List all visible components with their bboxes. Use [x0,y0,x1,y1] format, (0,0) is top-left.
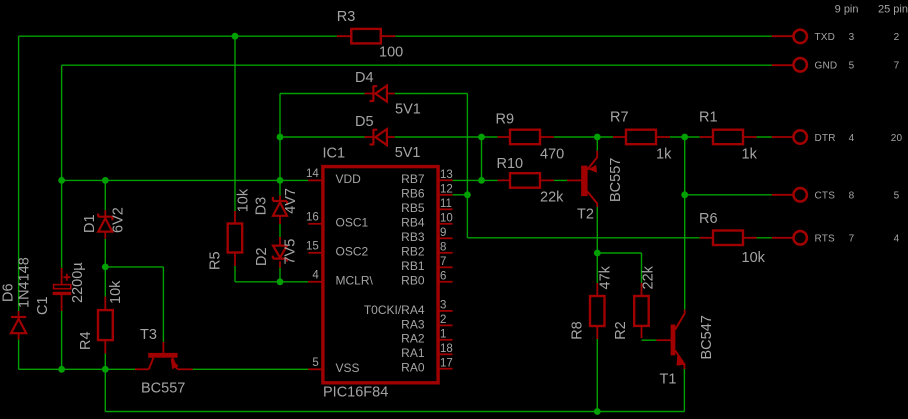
svg-text:R1: R1 [699,110,718,126]
svg-text:RB5: RB5 [401,201,425,215]
svg-text:RB4: RB4 [401,216,425,230]
svg-text:T0CKI/RA4: T0CKI/RA4 [364,303,425,317]
svg-text:BC547: BC547 [699,315,715,359]
svg-text:T3: T3 [140,327,157,343]
svg-text:22k: 22k [640,265,656,289]
svg-text:15: 15 [306,240,319,252]
svg-text:RB3: RB3 [401,230,425,244]
svg-text:6: 6 [440,270,446,282]
svg-text:470: 470 [540,147,564,163]
svg-text:R3: R3 [337,9,356,25]
svg-text:4: 4 [312,269,319,281]
svg-text:R8: R8 [570,321,586,340]
svg-text:MCLR\: MCLR\ [336,274,374,288]
svg-text:GND: GND [815,61,838,72]
svg-text:3: 3 [849,32,855,43]
svg-text:RB7: RB7 [401,172,425,186]
svg-text:RB2: RB2 [401,245,425,259]
svg-text:47k: 47k [597,265,613,289]
svg-text:14: 14 [306,168,319,180]
svg-text:BC557: BC557 [141,380,185,396]
svg-text:OSC2: OSC2 [336,245,369,259]
svg-text:4: 4 [894,234,900,245]
svg-text:RB0: RB0 [401,274,425,288]
svg-text:10k: 10k [235,188,251,212]
svg-text:2: 2 [894,32,900,43]
svg-text:R6: R6 [699,211,718,227]
svg-text:RTS: RTS [815,234,836,245]
svg-text:10: 10 [440,212,453,224]
svg-text:R4: R4 [78,331,94,350]
svg-text:C1: C1 [35,296,51,315]
svg-text:7V5: 7V5 [282,239,298,265]
svg-text:8: 8 [440,241,446,253]
svg-text:R10: R10 [497,156,524,172]
svg-text:RA2: RA2 [401,332,425,346]
svg-text:RA0: RA0 [401,361,425,375]
svg-text:RB6: RB6 [401,187,425,201]
svg-text:5V1: 5V1 [395,145,421,161]
svg-text:TXD: TXD [815,32,836,43]
svg-text:100: 100 [379,45,403,61]
svg-text:RA1: RA1 [401,346,425,360]
svg-text:9 pin: 9 pin [835,4,859,16]
svg-text:25 pin: 25 pin [878,4,908,16]
svg-text:RB1: RB1 [401,259,425,273]
svg-text:5V1: 5V1 [395,102,421,118]
svg-text:2200µ: 2200µ [70,262,86,303]
svg-text:D3: D3 [253,197,269,216]
svg-text:2: 2 [440,314,446,326]
svg-text:PIC16F84: PIC16F84 [323,385,388,401]
svg-text:18: 18 [440,343,453,355]
svg-text:D1: D1 [82,214,98,233]
svg-text:1N4148: 1N4148 [16,257,32,308]
svg-text:13: 13 [440,169,453,181]
svg-text:RA3: RA3 [401,317,425,331]
svg-text:6V2: 6V2 [110,207,126,233]
svg-text:1k: 1k [742,147,758,163]
svg-text:16: 16 [306,211,319,223]
svg-text:4V7: 4V7 [283,188,299,214]
svg-text:1: 1 [440,328,446,340]
svg-text:1k: 1k [656,147,672,163]
svg-text:R7: R7 [610,110,629,126]
svg-text:D4: D4 [355,70,374,86]
svg-text:17: 17 [440,357,453,369]
svg-text:10k: 10k [742,250,766,266]
svg-text:VSS: VSS [336,361,360,375]
svg-text:OSC1: OSC1 [336,216,369,230]
svg-text:T2: T2 [577,207,594,223]
svg-text:7: 7 [849,234,855,245]
svg-text:DTR: DTR [815,133,836,144]
svg-text:20: 20 [891,133,903,144]
svg-text:22k: 22k [540,190,564,206]
svg-text:3: 3 [440,300,446,312]
svg-text:R9: R9 [496,112,515,128]
svg-text:7: 7 [440,256,446,268]
svg-text:12: 12 [440,183,453,195]
svg-text:5: 5 [849,61,855,72]
svg-text:T1: T1 [660,372,677,388]
svg-text:9: 9 [440,227,446,239]
svg-text:D6: D6 [0,283,16,302]
svg-text:IC1: IC1 [323,146,346,162]
svg-text:CTS: CTS [815,191,836,202]
svg-text:R5: R5 [207,251,223,270]
svg-text:7: 7 [894,61,900,72]
svg-text:D2: D2 [254,247,270,266]
svg-text:5: 5 [894,191,900,202]
svg-text:4: 4 [849,133,855,144]
svg-text:10k: 10k [108,280,124,304]
svg-text:R2: R2 [613,321,629,340]
svg-text:BC557: BC557 [608,158,624,202]
svg-text:8: 8 [849,191,855,202]
svg-text:5: 5 [312,357,318,369]
svg-text:D5: D5 [355,114,374,130]
svg-text:11: 11 [440,198,452,210]
svg-text:VDD: VDD [336,172,362,186]
